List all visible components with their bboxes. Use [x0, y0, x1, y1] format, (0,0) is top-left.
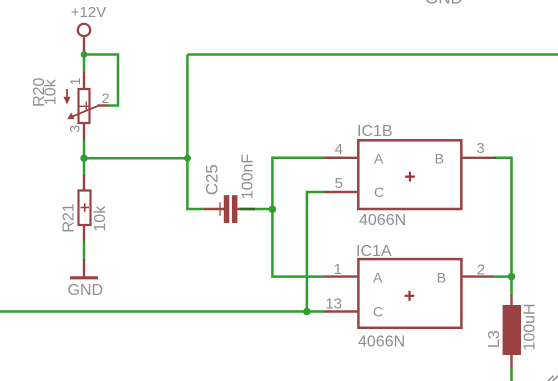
- node C25 right junction dot: [269, 206, 277, 214]
- resistor R21 body: [79, 191, 91, 226]
- svg-text:B: B: [435, 151, 444, 167]
- svg-text:1: 1: [67, 77, 83, 85]
- wire R21 to GND: [83, 242, 86, 260]
- svg-text:5: 5: [335, 175, 343, 192]
- svg-text:A: A: [373, 270, 383, 286]
- node C25 left branch junction dot: [184, 155, 191, 162]
- resistor R20 adjust arrow: [66, 89, 68, 98]
- wire L3 bottom to edge: [510, 368, 513, 381]
- svg-text:13: 13: [325, 296, 342, 313]
- wire junction up to IC1B pin4: [272, 158, 323, 210]
- wire vertical branch x=186.5 from top net to C25: [187, 55, 204, 210]
- svg-text:4066N: 4066N: [359, 212, 406, 229]
- svg-text:IC1A: IC1A: [356, 243, 392, 260]
- wire IC1B pin5 net from below: [307, 192, 324, 312]
- inductor L3 top pin stub: [510, 295, 512, 306]
- svg-text:1: 1: [334, 261, 342, 278]
- resistor R21 pin stub top: [83, 175, 85, 191]
- svg-text:2: 2: [477, 262, 485, 279]
- switch IC1A body: [358, 259, 461, 328]
- switch IC1B pin 5 stub: [324, 191, 359, 193]
- svg-text:4066N: 4066N: [358, 334, 405, 351]
- svg-text:+12V: +12V: [71, 4, 106, 21]
- switch IC1B body: [358, 140, 461, 209]
- svg-text:3: 3: [476, 140, 484, 157]
- switch IC1B pin 4 stub: [324, 157, 359, 159]
- ground GND bar: [70, 276, 98, 279]
- svg-text:GND: GND: [425, 0, 463, 8]
- wire long top net to GND label: [187, 53, 558, 56]
- resistor R20 pin3 stub: [83, 123, 85, 140]
- node bottom net junction dot: [303, 308, 311, 316]
- wire IC1A pin2 to L3 junction: [494, 275, 512, 278]
- svg-text:C: C: [373, 304, 383, 320]
- capacitor C25 right pin stub: [237, 208, 255, 210]
- resistor R21 pin stub bottom: [83, 225, 85, 243]
- svg-text:R21: R21: [61, 203, 78, 232]
- wire R20 pin3 to junction: [83, 140, 86, 158]
- switch IC1A pin 2 stub: [461, 275, 494, 277]
- node L3 junction dot: [508, 273, 516, 281]
- node R20/R21 junction dot: [80, 155, 87, 162]
- svg-text:10k: 10k: [43, 78, 60, 105]
- capacitor C25 left plate: [224, 195, 230, 223]
- svg-text:IC1B: IC1B: [357, 123, 393, 140]
- ground GND lead: [83, 259, 85, 277]
- svg-text:C: C: [374, 184, 384, 200]
- wire +12V junction down to R20 pin1: [83, 55, 86, 74]
- switch IC1A pin 1 stub: [324, 275, 358, 277]
- wire junction to C25 branch: [84, 157, 188, 160]
- svg-text:100uH: 100uH: [521, 303, 538, 350]
- switch IC1A pin 13 stub: [324, 310, 358, 312]
- resistor R20 wiper diagonal: [72, 106, 100, 117]
- svg-text:B: B: [437, 270, 446, 286]
- clipped label glyphs bottom right corner: [548, 376, 558, 381]
- capacitor C25 origin cross: [219, 202, 221, 215]
- svg-text:3: 3: [67, 125, 83, 133]
- svg-text:GND: GND: [68, 282, 104, 299]
- wire junction down to R21: [83, 158, 86, 176]
- switch IC1B origin cross: [405, 172, 415, 182]
- wire C25 right to junction: [255, 208, 272, 211]
- wire C25 right overlap segment: [240, 208, 255, 211]
- switch IC1A origin cross: [405, 291, 415, 301]
- wire IC1B pin3 overlap segment: [494, 157, 496, 160]
- wire long bottom net: [0, 310, 324, 313]
- resistor R21 origin cross: [81, 203, 90, 212]
- switch IC1B pin 3 stub: [461, 157, 494, 159]
- resistor R20 pin2 wiper stub: [98, 104, 109, 106]
- svg-text:2: 2: [102, 90, 110, 106]
- svg-text:100nF: 100nF: [240, 154, 257, 200]
- inductor L3 bottom pin stub: [510, 355, 512, 369]
- resistor R20 body: [79, 89, 90, 123]
- wire junction down to IC1A pin1: [272, 209, 324, 276]
- wire +12V junction right then down to R20 pin2: [84, 55, 118, 106]
- supply +12V lead wire: [83, 37, 85, 53]
- svg-text:L3: L3: [486, 330, 503, 348]
- capacitor C25 right plate: [232, 195, 238, 223]
- resistor R20 origin cross: [79, 101, 89, 111]
- capacitor C25 left pin stub: [204, 208, 224, 210]
- wire IC1B pin4 overlap segment: [324, 157, 342, 160]
- svg-text:4: 4: [335, 141, 343, 158]
- svg-text:10k: 10k: [92, 205, 109, 232]
- resistor R20 pin1 stub: [83, 72, 85, 89]
- inductor L3 body: [503, 305, 521, 355]
- supply +12V circle symbol: [78, 24, 90, 36]
- svg-text:A: A: [374, 151, 384, 167]
- svg-text:C25: C25: [202, 164, 221, 195]
- node +12V junction dot: [81, 51, 88, 58]
- wire IC1B pin3 to L3 branch: [496, 158, 511, 296]
